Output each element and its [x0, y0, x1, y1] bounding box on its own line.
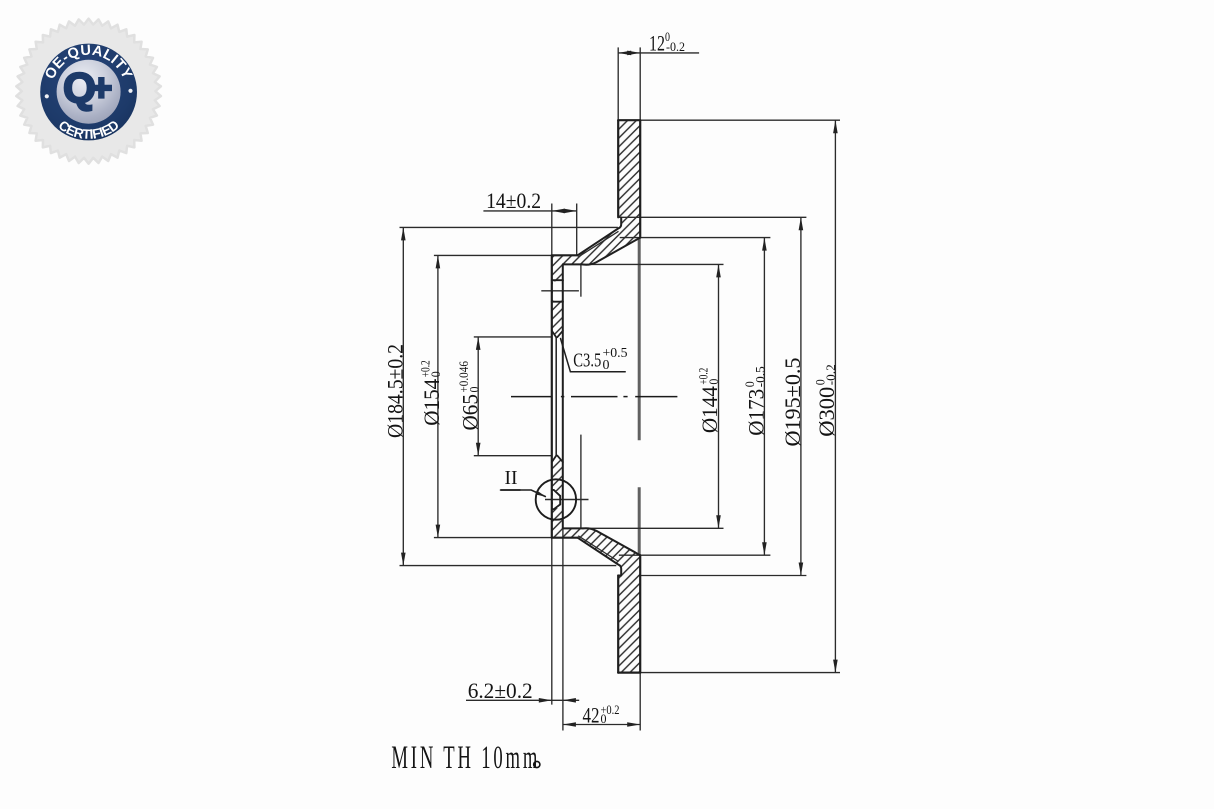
bore silhouette line	[555, 337, 557, 455]
bolt hole centerline upper	[541, 290, 579, 292]
dim text diameter 173	[743, 366, 768, 436]
disc top edge	[618, 119, 640, 121]
bolt hole upper bottom edge	[552, 301, 563, 303]
ext line 12 right	[639, 47, 641, 120]
bore chamfer lower right	[557, 456, 563, 463]
badge dot right	[128, 89, 132, 93]
background edge line x=639 lower	[638, 487, 641, 554]
dim text diameter 195 pm 0.5	[780, 358, 805, 447]
ext line diameter 154 bottom	[434, 537, 552, 539]
disc bottom edge	[618, 671, 640, 673]
bolt hole lower chamfer top	[552, 490, 560, 496]
arrowheads diameter 173	[762, 238, 767, 251]
dim text diameter 144	[697, 368, 722, 434]
dim text diameter 65	[457, 361, 482, 431]
bore chamfer upper right	[557, 331, 563, 338]
web upper slant lower half	[583, 528, 640, 555]
ext line bolt-hole upper x=581	[580, 264, 582, 297]
ext line diameter 65 bottom	[474, 455, 552, 457]
hat outer surface upper	[563, 263, 583, 265]
svg-text:II: II	[505, 467, 518, 489]
svg-text:-0.2: -0.2	[666, 40, 685, 54]
ext line diameter 300 bottom / disc bottom	[640, 672, 840, 674]
svg-text:42: 42	[583, 702, 600, 727]
dim line diameter 65	[477, 337, 479, 456]
ext line diameter 195 bottom	[640, 575, 806, 577]
arrowheads 42	[563, 722, 576, 727]
ext line 6.2 left	[551, 538, 553, 705]
bolt hole lower chamfer bottom	[552, 504, 560, 509]
svg-text:MIN TH 10mm: MIN TH 10mm	[391, 738, 540, 775]
bolt hole lower (white-out)	[553, 491, 562, 508]
svg-text:0: 0	[603, 357, 610, 372]
flange left face	[551, 255, 553, 537]
disc step lower	[618, 575, 621, 577]
svg-text:14±0.2: 14±0.2	[486, 188, 541, 213]
svg-text:+: +	[90, 68, 112, 110]
bore chamfer lower left	[552, 456, 556, 463]
disc right face upper	[639, 120, 641, 237]
flange right face	[562, 264, 564, 528]
web tangent edge lower	[578, 536, 618, 562]
note MIN TH 10mm	[391, 738, 540, 775]
arrowheads diameter 184.5	[401, 227, 406, 240]
badge arc text CERTIFIED	[42, 92, 136, 139]
bore chamfer upper left	[552, 331, 556, 338]
arrowheads diameter 144	[716, 264, 721, 277]
ext line 14 left	[551, 204, 553, 256]
ext line diameter 144 top	[583, 263, 724, 265]
dim line diameter 300	[834, 120, 836, 672]
dim line 42	[563, 724, 640, 726]
ext line 14 right	[576, 204, 578, 256]
ext line diameter 144 bottom	[583, 527, 724, 529]
label II underline	[501, 489, 521, 491]
dim text diameter 154	[419, 360, 444, 426]
disc left face lower	[617, 576, 619, 673]
web bottom slant upper	[583, 238, 640, 265]
hat bottom face	[552, 537, 578, 539]
dim line diameter 144	[718, 264, 720, 528]
badge navy ring	[40, 44, 137, 141]
disc section lower half (hatched)	[552, 456, 640, 673]
ext line diameter 65 top	[474, 336, 552, 338]
axis centerline (dash-dot)	[511, 396, 677, 398]
OE-Quality certified badge	[16, 19, 161, 164]
hat top face	[552, 254, 578, 256]
svg-text:-0.2: -0.2	[824, 364, 838, 385]
arrowheads diameter 195	[799, 217, 804, 230]
arrowheads diameter 65	[476, 337, 481, 350]
badge silver center	[57, 60, 121, 124]
disc notch upper and web top slant	[578, 218, 622, 256]
svg-text:0: 0	[468, 387, 482, 393]
dim line 12	[618, 52, 699, 54]
badge dot left	[45, 94, 49, 98]
svg-text:Ø195±0.5: Ø195±0.5	[780, 358, 805, 447]
svg-text:0: 0	[707, 379, 721, 385]
ext line bolt-hole lower x=581	[580, 435, 582, 528]
arrowheads 6.2	[539, 698, 552, 703]
svg-text:Ø144: Ø144	[697, 386, 722, 433]
bolt hole centerline lower	[545, 499, 589, 501]
svg-text:0: 0	[601, 712, 607, 726]
arrowheads diameter 300	[833, 120, 838, 133]
dim text diameter 184.5 pm 0.2	[383, 344, 408, 438]
leader line C3.5	[561, 339, 626, 372]
disc right face lower	[639, 555, 641, 672]
svg-text:6.2±0.2: 6.2±0.2	[468, 678, 533, 703]
svg-text:-0.5: -0.5	[754, 366, 768, 387]
dim line 14	[483, 210, 576, 212]
disc section upper half (hatched)	[552, 120, 640, 337]
dim line diameter 195	[800, 217, 802, 575]
svg-text:C3.5: C3.5	[573, 350, 601, 371]
ext line diameter 173 top	[620, 237, 771, 239]
ext line diameter 154 top	[434, 254, 552, 256]
badge gear ring	[16, 19, 161, 164]
ext line 42 right	[639, 673, 641, 731]
dim line diameter 173	[763, 238, 765, 556]
detail circle II	[536, 479, 576, 519]
arrowheads 14	[552, 209, 565, 214]
ext line diameter 184.5 top	[400, 226, 618, 228]
arrowheads 12	[618, 51, 631, 56]
disc notch lower and web slant lower	[578, 538, 622, 576]
dim text diameter 300	[814, 364, 839, 437]
background edge line x=639 upper	[638, 239, 641, 441]
svg-text:Ø184.5±0.2: Ø184.5±0.2	[383, 344, 408, 438]
svg-text:12: 12	[649, 30, 665, 55]
note ideographic full stop	[534, 761, 540, 767]
web tangent edge upper	[578, 231, 618, 257]
svg-text:Ø173: Ø173	[744, 389, 769, 436]
ext line diameter 300 top / disc top	[640, 119, 840, 121]
ext line diameter 173 bottom	[619, 554, 771, 556]
svg-text:Ø65: Ø65	[458, 394, 483, 431]
bolt hole upper (white-out)	[553, 281, 562, 300]
hat outer surface lower	[563, 527, 583, 529]
bolt hole lower land	[559, 496, 561, 505]
svg-text:0: 0	[429, 371, 443, 377]
bolt hole upper top edge	[552, 279, 563, 281]
ext line 12 left	[617, 47, 619, 120]
svg-text:Ø300: Ø300	[814, 387, 839, 437]
dim line diameter 154	[437, 255, 439, 537]
disc left face upper	[617, 120, 619, 217]
dim line diameter 184.5	[402, 227, 404, 565]
ext line 6.2 right / 42 left	[562, 528, 564, 730]
badge arc text OE-QUALITY	[51, 55, 125, 92]
arrowheads diameter 154	[436, 255, 441, 268]
ext line diameter 195 top	[618, 216, 806, 218]
svg-text:Ø154: Ø154	[419, 379, 444, 426]
leader line II	[501, 490, 546, 497]
dim line 6.2	[466, 699, 579, 701]
leader arrowhead II	[537, 491, 546, 496]
ext line diameter 184.5 bottom	[400, 565, 617, 567]
